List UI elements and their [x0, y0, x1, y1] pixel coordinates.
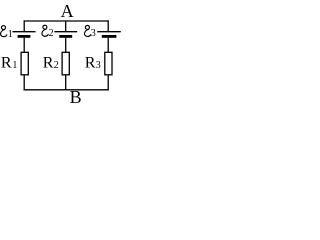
EMF label E3 [84, 25, 95, 38]
battery E1 (cell, long plate + short thick plate) [12, 32, 35, 37]
wire: branch 2, resistor R2 to rail B [65, 75, 67, 91]
wire: branch 1, rail A to battery E1 [23, 20, 25, 31]
battery E3 (cell, long plate + short thick plate) [97, 32, 121, 37]
svg-text:1: 1 [8, 29, 13, 40]
wire: top rail (node A bus) [24, 20, 109, 22]
svg-text:1: 1 [12, 60, 17, 71]
EMF label E1 [1, 26, 13, 40]
svg-text:2: 2 [54, 60, 59, 71]
wire: branch 2, battery E2 to resistor R2 [65, 38, 67, 53]
resistor R2 label [43, 55, 59, 72]
wire: branch 1, battery E1 to resistor R1 [23, 38, 25, 53]
wire: bottom rail (node B bus) [24, 89, 109, 91]
resistor R3 label [85, 55, 101, 72]
resistor R2 (box) [62, 52, 69, 75]
svg-text:R: R [1, 55, 12, 72]
svg-text:3: 3 [96, 60, 101, 71]
wire: branch 1, resistor R1 to rail B [23, 75, 25, 91]
svg-text:B: B [70, 87, 82, 103]
resistor R3 (box) [105, 52, 112, 75]
svg-text:2: 2 [49, 28, 54, 39]
svg-text:R: R [85, 55, 96, 72]
wire: branch 3, resistor R3 to rail B [107, 75, 109, 91]
EMF label E2 [42, 25, 54, 39]
wire: branch 3, rail A to battery E3 [107, 20, 109, 31]
wire: branch 2, rail A to battery E2 [65, 21, 67, 32]
resistor R1 label [1, 55, 18, 72]
svg-text:3: 3 [91, 28, 96, 39]
resistor R1 (box) [21, 52, 28, 75]
battery E2 (cell, long plate + short thick plate) [54, 32, 77, 37]
svg-text:R: R [43, 55, 54, 72]
wire: branch 3, battery E3 to resistor R3 [107, 38, 109, 53]
svg-text:A: A [61, 1, 74, 21]
